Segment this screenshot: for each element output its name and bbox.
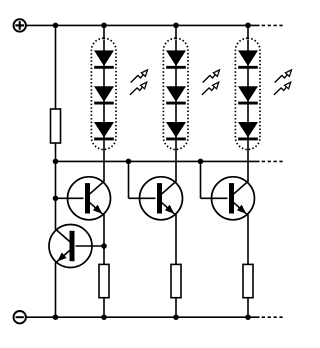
plus supply terminal	[14, 19, 26, 31]
junction dot: left column / bottom rail	[53, 314, 59, 320]
wire: Q2 base from left node	[56, 197, 84, 199]
wire: base rail tap down to Q4 base	[200, 161, 202, 198]
LED string 2 dotted outline	[163, 38, 188, 149]
wire: to Q4 base	[201, 197, 228, 199]
light emission arrows of string 3	[274, 70, 292, 95]
wire: top positive rail	[26, 24, 260, 26]
junction dot: R4 / bottom rail	[245, 314, 251, 320]
wire: top rail to LED string 1	[103, 25, 105, 39]
LED D1b	[94, 86, 114, 103]
LED D2c	[166, 122, 186, 139]
wire: base rail tap down to Q3 base	[128, 161, 130, 198]
LED string 3 dotted outline	[235, 38, 260, 149]
junction dot: left column / base rail	[53, 159, 59, 165]
transistor Q3 (channel 2 current sink)	[140, 177, 183, 220]
wire: R1 bottom to base rail junction	[55, 143, 57, 161]
wire: bottom rail dashed continuation	[262, 316, 284, 318]
LED D1c	[94, 122, 114, 139]
transistor Q4 (channel 3 current sink)	[212, 177, 255, 220]
junction dot: base rail tap for Q3	[126, 159, 132, 165]
wire: base rail	[56, 160, 260, 162]
minus supply terminal	[14, 311, 26, 323]
wire: base rail junction down to Q2 base node	[55, 161, 57, 198]
LED D3c	[238, 122, 258, 139]
LED D2b	[166, 86, 186, 103]
wire: Q1 emitter down to bottom rail	[55, 262, 57, 317]
wire: R4 to bottom rail	[247, 298, 249, 318]
wire: LED string 2 internal conductor	[175, 40, 177, 150]
LED D2a	[166, 50, 186, 67]
wire: R2 to bottom rail	[103, 298, 105, 318]
light emission arrows of string 1	[130, 70, 148, 95]
wire: base rail dashed continuation	[262, 160, 284, 162]
junction dot: Q2 base node	[53, 196, 59, 202]
wire: top rail dashed continuation	[262, 24, 284, 26]
wire: Q2 base node down to Q1 collector	[55, 198, 57, 229]
junction dot: top rail / LED string 2	[173, 23, 179, 29]
resistor R1 (base bias)	[51, 109, 61, 143]
wire: LED string 3 internal conductor	[247, 40, 249, 150]
resistor R4 (emitter current-sense)	[243, 264, 253, 297]
wire: left column from top rail to R1	[55, 25, 57, 109]
junction dot: top rail / LED string 3	[245, 23, 251, 29]
wire: top rail to LED string 2	[175, 25, 177, 39]
wire: Q1 base to Q2 emitter node	[76, 245, 105, 247]
junction dot: Q1 base / Q2 emitter node	[101, 243, 107, 249]
wire: LED string 1 bottom through base rail to collector	[103, 150, 105, 183]
LED D3a	[238, 50, 258, 67]
wire: Q4 emitter down to R4	[247, 215, 249, 265]
wire: LED string 1 internal conductor	[103, 40, 105, 150]
LED D3b	[238, 86, 258, 103]
wire: LED string 3 bottom through base rail to collector	[247, 150, 249, 183]
wire: Q3 emitter down to R3	[175, 215, 177, 265]
LED string 1 dotted outline	[91, 38, 116, 149]
junction dot: base rail tap for Q4	[198, 159, 204, 165]
wire: Q2 emitter down to R2	[103, 215, 105, 265]
junction dot: R2 / bottom rail	[101, 314, 107, 320]
transistor Q2 (channel 1 current sink)	[68, 177, 111, 220]
junction dot: R3 / bottom rail	[173, 314, 179, 320]
LED D1a	[94, 50, 114, 67]
light emission arrows of string 2	[202, 70, 220, 95]
junction dot: left column / top rail	[53, 23, 59, 29]
resistor R2 (emitter current-sense)	[99, 264, 109, 297]
resistor R3 (emitter current-sense)	[171, 264, 181, 297]
junction dot: top rail / LED string 1	[101, 23, 107, 29]
wire: top rail to LED string 3	[247, 25, 249, 39]
wire: to Q3 base	[129, 197, 156, 199]
wire: bottom negative rail	[26, 316, 260, 318]
transistor Q1 (current-limit sense, mirrored)	[49, 225, 92, 268]
wire: LED string 2 bottom through base rail to collector	[175, 150, 177, 183]
wire: R3 to bottom rail	[175, 298, 177, 318]
